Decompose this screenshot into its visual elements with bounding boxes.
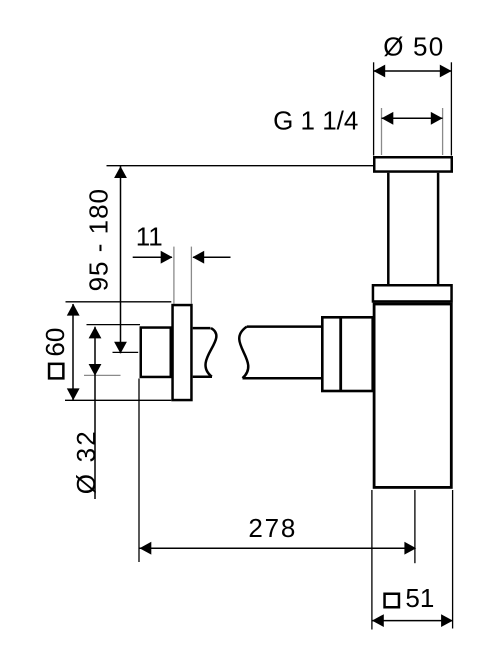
svg-text:Ø 32: Ø 32 bbox=[71, 429, 101, 494]
svg-text:Ø 50: Ø 50 bbox=[383, 31, 444, 61]
svg-text:G 1 1/4: G 1 1/4 bbox=[273, 105, 358, 135]
svg-text:51: 51 bbox=[405, 583, 434, 613]
svg-text:95 - 180: 95 - 180 bbox=[84, 188, 114, 291]
svg-text:278: 278 bbox=[248, 513, 297, 543]
svg-text:60: 60 bbox=[40, 328, 70, 357]
svg-text:11: 11 bbox=[136, 222, 163, 252]
